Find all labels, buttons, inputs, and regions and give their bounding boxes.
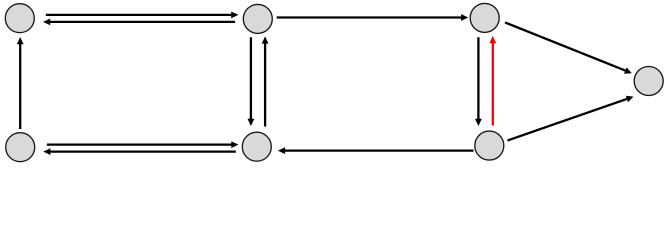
- wire: edge BM to BL (leftward arrow): [43, 148, 236, 155]
- node TR (top-right state): [470, 3, 499, 32]
- node BR (bottom-right state): [475, 131, 504, 160]
- wire: edge BR to TR (upward arrow, red): [489, 36, 496, 126]
- wire: edge BR to FR (diagonal up-right arrow): [508, 96, 634, 141]
- wire: edge BL to BM (top, rightward arrow): [47, 141, 239, 148]
- wire: edge TR to FR (diagonal down-right arrow): [505, 22, 632, 73]
- node FR (far-right state): [634, 67, 663, 96]
- wire: edge BL to TL (upward arrow): [17, 37, 24, 129]
- wire: edge BR to BM (leftward arrow): [278, 147, 474, 154]
- wire: edge BM to TM (upward arrow): [262, 36, 269, 126]
- wire: edge TM to BM (downward arrow): [248, 37, 255, 126]
- node BL (bottom-left state): [6, 133, 35, 162]
- wire: edge TL to TM (top, rightward arrow): [46, 12, 239, 19]
- node TL (top-left state): [5, 4, 34, 33]
- wire: edge TR to BR (downward arrow, black): [475, 37, 482, 126]
- wire: edge TM to TR (rightward arrow): [277, 14, 469, 21]
- node BM (bottom-middle state): [242, 132, 271, 161]
- node TM (top-middle state): [243, 4, 272, 33]
- wire: edge TM to TL (leftward arrow): [43, 19, 235, 26]
